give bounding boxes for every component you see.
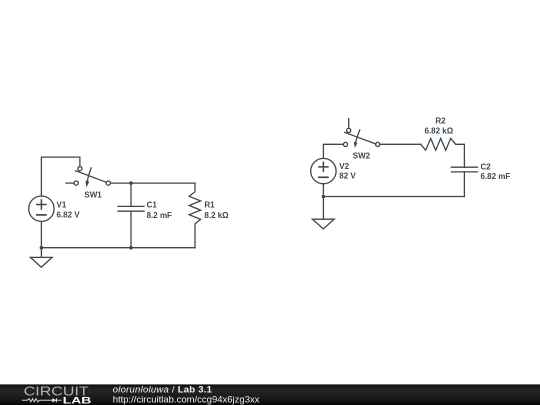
wire SW2 to R2 [380, 143, 421, 145]
ground 1 [31, 248, 53, 268]
svg-text:SW2: SW2 [353, 152, 371, 161]
capacitor C1 [118, 183, 144, 248]
logo resistor squiggle and diode [22, 398, 62, 402]
node ground junction 2 [322, 195, 326, 199]
svg-text:SW1: SW1 [84, 190, 102, 199]
svg-text:V2: V2 [339, 162, 349, 171]
footer bar [0, 384, 540, 405]
node bottom of C1 [129, 246, 133, 250]
bottom wire circuit 1 [41, 247, 195, 249]
wire V1 top to SW1 [41, 157, 80, 196]
svg-text:http://circuitlab.com/ccg94x6j: http://circuitlab.com/ccg94x6jzg3xx [113, 394, 260, 405]
resistor R1 [189, 183, 200, 248]
svg-text:8.2 kΩ: 8.2 kΩ [204, 211, 229, 220]
svg-text:6.82 kΩ: 6.82 kΩ [424, 127, 453, 136]
capacitor C2 [451, 167, 477, 196]
wire V2 top to SW2 [323, 144, 343, 158]
svg-text:LAB: LAB [63, 395, 92, 405]
switch SW2 [343, 119, 379, 148]
resistor R2 [421, 138, 465, 167]
bottom wire circuit 2 [323, 196, 464, 198]
svg-text:C1: C1 [147, 200, 158, 209]
switch SW1 [66, 167, 110, 188]
voltage source V2 [311, 158, 336, 196]
svg-text:6.82 V: 6.82 V [57, 210, 81, 219]
wire SW1 to R1 top [110, 182, 195, 184]
svg-text:V1: V1 [57, 200, 67, 209]
ground 2 [312, 197, 334, 229]
node top of C1 [129, 181, 133, 185]
svg-text:R1: R1 [204, 200, 215, 209]
svg-text:82 V: 82 V [339, 172, 356, 181]
svg-text:8.2 mF: 8.2 mF [147, 211, 172, 220]
svg-text:R2: R2 [435, 116, 446, 125]
svg-text:6.82 mF: 6.82 mF [481, 172, 511, 181]
svg-text:C2: C2 [481, 162, 492, 171]
voltage source V1 [29, 196, 54, 248]
node ground junction 1 [40, 246, 44, 250]
